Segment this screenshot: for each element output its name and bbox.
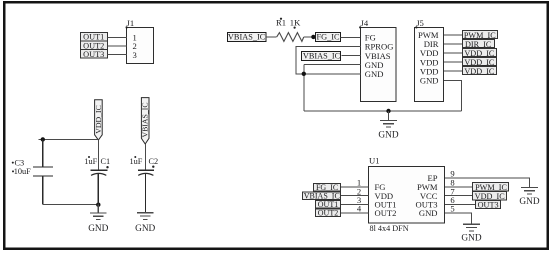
svg-text:1K: 1K [290, 18, 301, 28]
R1 origin dot [280, 18, 282, 20]
net label VBIAS_IC (left of R1) [228, 33, 267, 42]
net label OUT2 (U1 pin 4) [316, 209, 341, 218]
svg-text:VDD_IC: VDD_IC [94, 105, 103, 134]
svg-text:VBIAS_IC: VBIAS_IC [141, 102, 150, 137]
J5 origin dot [415, 26, 417, 28]
svg-text:C1: C1 [101, 157, 111, 166]
net label OUT3 (U1 pin 6) [476, 201, 501, 210]
svg-text:GND: GND [378, 131, 398, 141]
svg-text:VBIAS_IC: VBIAS_IC [228, 33, 266, 42]
svg-text:OUT2: OUT2 [375, 208, 397, 218]
svg-text:1uF: 1uF [130, 157, 143, 166]
net label OUT3 (J1) [81, 50, 108, 60]
svg-text:U1: U1 [369, 156, 380, 166]
wire J5 GND to ground bus [444, 80, 462, 111]
svg-text:PWM_IC: PWM_IC [464, 31, 496, 40]
svg-text:J4: J4 [361, 18, 369, 28]
wire VDD_IC flag to C1 [97, 140, 99, 170]
junction dot C1 ground [96, 203, 100, 207]
wire U1 pin 3 [341, 203, 368, 205]
wire ground bus [304, 110, 462, 112]
wire U1 EP (pin 9) to ground [445, 178, 530, 188]
ground symbol C2 [137, 213, 154, 220]
wire U1 OUT3 (pin 6) [445, 203, 475, 205]
wire U1 PWM (pin 8) [445, 186, 473, 188]
net label VBIAS_IC (U1 pin 2) [303, 192, 341, 201]
junction dot node FG [311, 35, 315, 39]
wire R1 to FG_IC [304, 36, 316, 38]
10uF origin dot [12, 170, 14, 172]
net label OUT1 (U1 pin 3) [316, 200, 341, 209]
svg-text:4: 4 [357, 204, 362, 214]
net label VDD_IC (J5 row 3) [463, 67, 497, 77]
svg-text:5: 5 [450, 204, 454, 214]
1uF origin dot (C1) [88, 156, 90, 158]
connector J4 [361, 28, 397, 102]
net label DIR_IC (J5) [463, 40, 495, 49]
wire U1 GND (pin 5) to ground [445, 213, 472, 224]
svg-text:OUT3: OUT3 [83, 50, 104, 59]
svg-text:GND: GND [135, 224, 155, 234]
net label OUT2 (J1) [81, 41, 108, 50]
J1 origin dot [126, 26, 128, 28]
svg-text:J5: J5 [416, 18, 424, 28]
wire U1 pin 2 [341, 195, 368, 197]
svg-text:PWM_IC: PWM_IC [475, 183, 507, 192]
ground symbol EP [521, 187, 538, 194]
J4 origin dot [359, 26, 361, 28]
svg-text:8l 4x4 DFN: 8l 4x4 DFN [370, 224, 409, 233]
wire J5 DIR [444, 43, 463, 45]
wire VBIAS_IC to J4 pin VBIAS [341, 55, 361, 57]
svg-text:1uF: 1uF [84, 157, 97, 166]
wire J5 VDD 1 [444, 52, 463, 54]
ground symbol (J4/J5 bus) [380, 111, 397, 127]
wire J5 VDD 3 [444, 70, 463, 72]
power flag VBIAS_IC (over C2) [141, 98, 150, 144]
wire C3 top branch [39, 138, 99, 140]
wire GND net vertical [303, 65, 305, 111]
svg-text:VBIAS_IC: VBIAS_IC [303, 51, 341, 60]
svg-text:GND: GND [461, 233, 481, 243]
svg-text:GND: GND [88, 224, 108, 234]
svg-text:OUT2: OUT2 [318, 209, 338, 218]
capacitor C3 [33, 139, 53, 204]
wire J5 VDD 2 [444, 61, 463, 63]
1uF origin dot (C2) [134, 156, 136, 158]
1K origin dot [294, 27, 296, 29]
svg-text:VDD_IC: VDD_IC [464, 49, 495, 58]
svg-text:FG_IC: FG_IC [316, 33, 340, 42]
capacitor C1 [91, 170, 108, 204]
ground symbol C1 [90, 205, 107, 220]
svg-text:OUT3: OUT3 [478, 201, 499, 210]
svg-text:C2: C2 [149, 157, 159, 166]
svg-text:VDD_IC: VDD_IC [475, 192, 506, 201]
wire J1 pin 3 [108, 54, 127, 56]
junction dot ground bus [386, 109, 390, 113]
C1 origin dot [106, 166, 108, 168]
C3 origin dot [12, 162, 14, 164]
wire U1 pin 4 [341, 212, 368, 214]
wire J1 pin 1 [108, 36, 127, 38]
IC U1 [369, 167, 445, 224]
svg-text:VDD_IC: VDD_IC [464, 58, 495, 67]
svg-text:DIR_IC: DIR_IC [465, 40, 492, 49]
connector J5 [415, 28, 444, 102]
resistor R1 [277, 33, 304, 42]
wire J5 PWM [444, 34, 463, 36]
net label VDD_IC (U1 pin 7) [473, 192, 507, 201]
svg-text:GND: GND [519, 197, 539, 207]
junction dot C3 top [41, 137, 45, 141]
svg-text:GND: GND [420, 76, 439, 86]
wire VBIAS_IC flag to C2 [144, 144, 146, 170]
svg-text:GND: GND [365, 69, 384, 79]
svg-text:3: 3 [133, 50, 137, 60]
svg-text:GND: GND [419, 208, 438, 218]
wire U1 pin 1 [341, 186, 368, 188]
wire C3 bottom branch [43, 204, 99, 206]
svg-text:VDD_IC: VDD_IC [464, 67, 495, 76]
net label FG_IC (U1 pin 1) [314, 183, 341, 192]
wire U1 VCC (pin 7) [445, 195, 473, 197]
net label PWM_IC (J5) [463, 31, 498, 40]
net label PWM_IC (U1 pin 8) [473, 183, 509, 193]
wire J4 RPROG to ground net [296, 47, 361, 74]
svg-text:OUT1: OUT1 [83, 33, 104, 42]
wire J1 pin 2 [108, 45, 127, 47]
svg-text:10uF: 10uF [14, 167, 31, 176]
svg-text:J1: J1 [127, 18, 135, 28]
net label VDD_IC (J5 row 1) [463, 49, 497, 59]
connector J1 [127, 28, 154, 64]
net label FG_IC (to J4) [316, 33, 341, 42]
net label VBIAS_IC (to J4 VBIAS) [302, 51, 341, 60]
C2 origin dot [152, 166, 154, 168]
capacitor C2 [138, 170, 154, 213]
svg-text:OUT2: OUT2 [83, 41, 104, 50]
wire J4 GND lower pin [304, 73, 361, 75]
ground symbol U1 GND [463, 224, 480, 231]
wire FG_IC to J4 pin FG [341, 36, 361, 38]
net label OUT1 (J1) [81, 33, 108, 42]
net label VDD_IC (J5 row 2) [463, 58, 497, 68]
junction dot J4 ground node [302, 72, 306, 76]
power flag VDD_IC (over C1) [94, 100, 103, 140]
wire J4 GND upper pin [304, 64, 361, 66]
wire VBIAS_IC to R1 [266, 36, 277, 38]
